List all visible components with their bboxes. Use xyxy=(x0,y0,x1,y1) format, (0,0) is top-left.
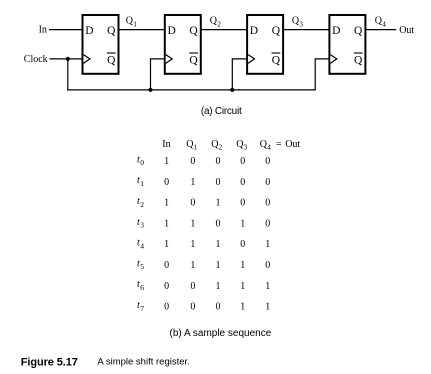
svg-text:2: 2 xyxy=(140,200,144,209)
svg-text:D: D xyxy=(168,25,176,37)
svg-text:2: 2 xyxy=(219,142,223,151)
svg-text:2: 2 xyxy=(217,19,221,28)
svg-text:00011: 00011 xyxy=(164,302,270,313)
svg-text:In: In xyxy=(162,139,170,150)
clock pin triangle (U2) xyxy=(166,55,173,64)
wire: Clock to U1 clock pin xyxy=(50,58,84,60)
svg-text:D: D xyxy=(85,25,93,37)
wire: net Q2 from U2.Q to U3.D xyxy=(201,29,248,31)
svg-text:Figure 5.17: Figure 5.17 xyxy=(21,356,78,368)
D flip-flop U3 xyxy=(247,15,283,74)
label: net Q2 xyxy=(210,16,221,29)
svg-text:4: 4 xyxy=(267,142,271,151)
flip-flop U4 body xyxy=(329,15,365,74)
wire: net Q3 from U3.Q to U4.D xyxy=(283,29,330,31)
svg-text:01110: 01110 xyxy=(164,260,270,271)
wire: clock riser to U4 at bus end xyxy=(315,59,329,91)
svg-text:1: 1 xyxy=(140,179,144,188)
junction: clock node at U1 branch xyxy=(66,57,70,61)
label: net Q1 xyxy=(126,16,137,29)
svg-text:Q: Q xyxy=(272,54,281,66)
svg-text:3: 3 xyxy=(140,221,144,230)
svg-text:6: 6 xyxy=(140,283,144,292)
pin label Qbar (U3) xyxy=(272,53,281,66)
svg-text:10100: 10100 xyxy=(164,198,270,209)
svg-text:A simple shift register.: A simple shift register. xyxy=(97,357,189,368)
svg-text:7: 7 xyxy=(140,304,144,313)
svg-text:In: In xyxy=(39,24,47,35)
svg-text:11010: 11010 xyxy=(164,218,270,229)
label: net Q3 xyxy=(292,16,303,29)
flip-flop U2 body xyxy=(165,15,201,74)
svg-text:11101: 11101 xyxy=(164,239,270,250)
D flip-flop U1 xyxy=(83,15,119,74)
wire: clock riser to U3 xyxy=(232,59,247,91)
svg-text:Q: Q xyxy=(107,54,116,66)
svg-text:(b) A sample sequence: (b) A sample sequence xyxy=(170,328,272,339)
svg-text:Q: Q xyxy=(189,54,198,66)
svg-text:3: 3 xyxy=(244,142,248,151)
clock pin triangle (U1) xyxy=(83,55,90,64)
wire: net Q1 from U1.Q to U2.D xyxy=(119,29,166,31)
clock pin triangle (U4) xyxy=(330,55,337,64)
svg-text:5: 5 xyxy=(140,262,144,271)
junction: clock bus to U3 riser xyxy=(230,88,234,92)
svg-text:0: 0 xyxy=(140,158,144,167)
svg-text:=: = xyxy=(276,139,282,150)
wire: clock vertical drop from junction xyxy=(67,59,69,91)
svg-text:1: 1 xyxy=(133,19,137,28)
svg-text:Q: Q xyxy=(189,25,198,37)
D flip-flop U4 xyxy=(329,15,365,74)
label: net Q4 xyxy=(375,16,386,29)
pin label Qbar (U4) xyxy=(354,53,363,66)
svg-text:4: 4 xyxy=(140,241,144,250)
flip-flop U3 body xyxy=(247,15,283,74)
svg-text:1: 1 xyxy=(194,142,198,151)
svg-text:Q: Q xyxy=(107,25,116,37)
pin label Qbar (U2) xyxy=(189,53,198,66)
svg-text:(a) Circuit: (a) Circuit xyxy=(201,106,242,117)
junction: clock bus to U2 riser xyxy=(149,88,153,92)
pin label Qbar (U1) xyxy=(107,53,116,66)
svg-text:00111: 00111 xyxy=(164,281,270,292)
svg-text:D: D xyxy=(332,25,340,37)
wire: clock bus horizontal xyxy=(67,89,315,91)
svg-text:Out: Out xyxy=(399,25,414,36)
svg-text:Q: Q xyxy=(272,25,281,37)
table rows xyxy=(137,154,270,167)
wire: net Q4 from U4.Q to Out xyxy=(365,29,396,31)
table header xyxy=(162,139,300,151)
svg-text:D: D xyxy=(250,25,258,37)
svg-text:01000: 01000 xyxy=(164,177,270,188)
wire: clock riser to U2 xyxy=(151,59,165,91)
svg-text:Clock: Clock xyxy=(24,54,48,65)
svg-text:Q: Q xyxy=(354,54,363,66)
svg-text:3: 3 xyxy=(299,19,303,28)
wire: In to U1 D input xyxy=(49,29,83,31)
D flip-flop U2 xyxy=(165,15,201,74)
svg-text:Out: Out xyxy=(285,139,300,150)
svg-text:10000: 10000 xyxy=(164,156,270,167)
svg-text:Q: Q xyxy=(354,25,363,37)
flip-flop U1 body xyxy=(83,15,119,74)
svg-text:4: 4 xyxy=(382,19,386,28)
clock pin triangle (U3) xyxy=(248,55,255,64)
